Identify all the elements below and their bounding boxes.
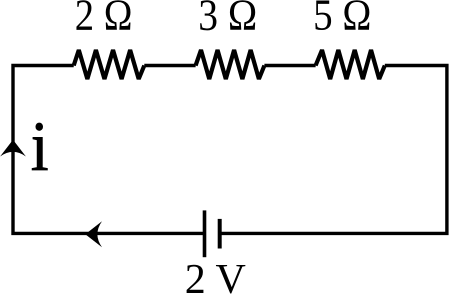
wire: top segment between R1 and R2 (144, 64, 195, 67)
resistor R3 (5 ohm) zigzag (316, 50, 385, 79)
wire: left side + bottom-left segment to battery long plate (13, 66, 205, 234)
current arrow left on bottom wire (85, 221, 102, 247)
svg-text:2 V: 2 V (185, 257, 246, 294)
battery V1 short plate (218, 219, 222, 249)
svg-text:2 Ω: 2 Ω (75, 0, 133, 39)
svg-text:i: i (31, 107, 49, 185)
resistor R1 (2 ohm) zigzag (74, 50, 145, 79)
battery V1 long plate (203, 210, 207, 257)
current arrow up on left wire (0, 140, 26, 157)
svg-text:3 Ω: 3 Ω (198, 0, 257, 40)
resistor R2 (3 ohm) zigzag (196, 50, 265, 79)
svg-text:5 Ω: 5 Ω (313, 0, 371, 39)
wire: top-right segment + right side + bottom-right segment to battery short plate (220, 66, 447, 234)
wire: top segment between R2 and R3 (264, 64, 315, 67)
